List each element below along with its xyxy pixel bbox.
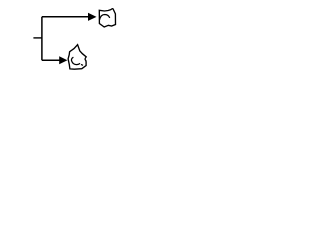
cloud node bottom inner arc tail bbox=[81, 63, 83, 66]
wire stub bbox=[33, 37, 41, 39]
cloud node top outline bbox=[99, 9, 115, 27]
arrowhead bottom bbox=[59, 56, 67, 64]
cloud node bottom inner arc bbox=[71, 57, 80, 64]
wire top branch bbox=[42, 16, 89, 18]
wire vertical bbox=[41, 17, 43, 61]
cloud node bottom outline bbox=[68, 45, 86, 69]
wire bottom branch bbox=[42, 59, 60, 61]
arrowhead top bbox=[88, 13, 97, 21]
cloud node top inner arc bbox=[100, 15, 110, 20]
